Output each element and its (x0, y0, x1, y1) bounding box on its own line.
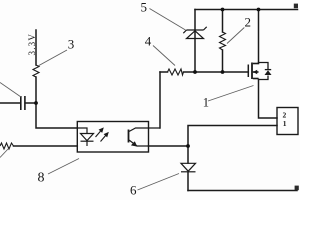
svg-text:5: 5 (141, 0, 148, 15)
svg-text:4: 4 (145, 34, 152, 49)
svg-text:6: 6 (130, 183, 137, 198)
svg-text:3.3V: 3.3V (27, 33, 37, 56)
svg-text:1: 1 (283, 119, 287, 128)
svg-text:2: 2 (245, 15, 252, 30)
svg-text:8: 8 (38, 171, 45, 186)
svg-text:1: 1 (203, 96, 209, 110)
svg-text:3: 3 (68, 37, 75, 52)
